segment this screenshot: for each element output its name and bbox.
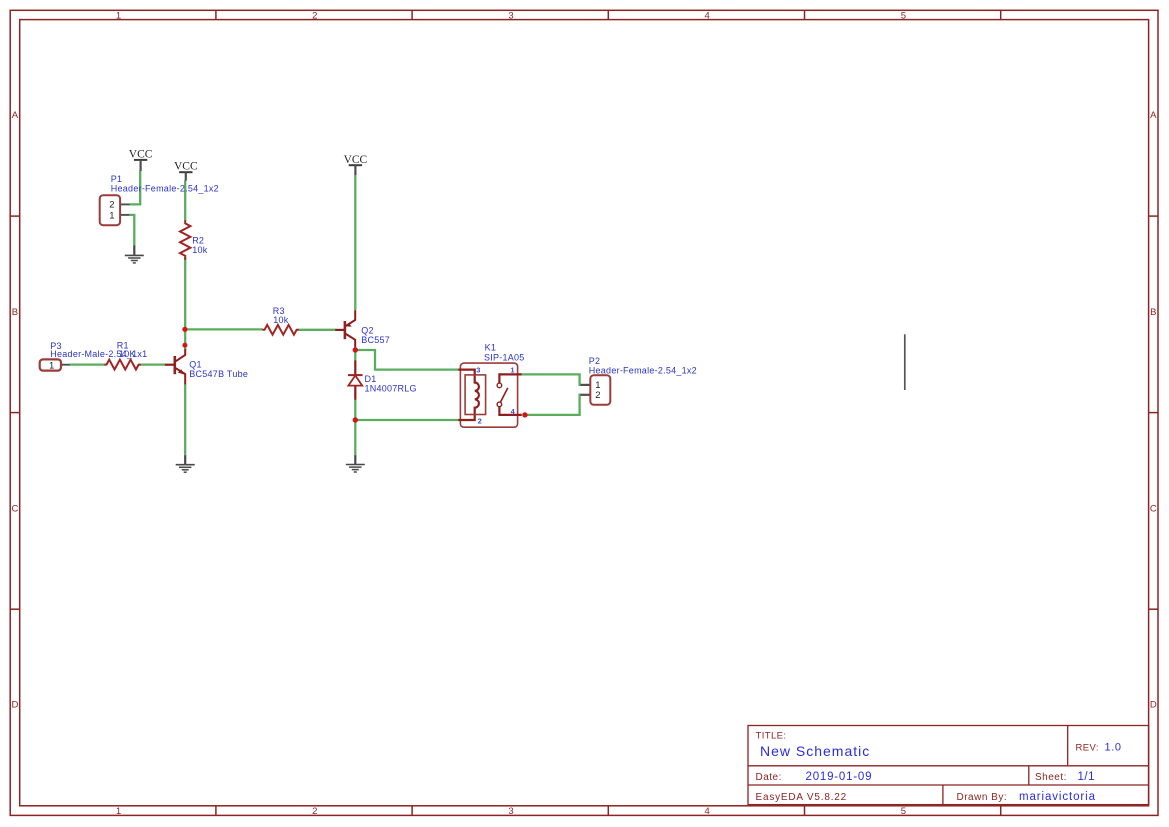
svg-text:2019-01-09: 2019-01-09	[806, 771, 873, 783]
svg-text:5: 5	[901, 806, 906, 817]
power VCC net flag 2	[174, 161, 198, 181]
svg-text:1: 1	[49, 360, 54, 371]
svg-text:1: 1	[116, 806, 121, 817]
ground GND2	[176, 455, 195, 472]
svg-text:Drawn By:: Drawn By:	[957, 792, 1008, 803]
svg-text:BC557: BC557	[361, 335, 390, 345]
wire R1 to Q1 base	[140, 363, 165, 365]
ground GND1	[125, 245, 144, 263]
junction node B	[182, 343, 187, 348]
title block	[748, 726, 1149, 805]
diode D1 1N4007RLG	[348, 360, 417, 399]
wire R2 to node A	[184, 258, 186, 329]
stray wire segment	[904, 334, 906, 390]
svg-text:D1: D1	[365, 374, 377, 384]
svg-text:10k: 10k	[192, 245, 208, 255]
K1 switch pin 4 lead	[499, 407, 521, 415]
svg-text:3: 3	[508, 806, 513, 817]
svg-text:B: B	[1150, 307, 1156, 318]
power VCC net flag 1	[129, 149, 153, 171]
svg-text:R2: R2	[192, 236, 204, 246]
svg-text:A: A	[1150, 110, 1157, 121]
resistor R1 10K	[104, 341, 140, 370]
svg-text:5: 5	[901, 11, 906, 22]
svg-text:P1: P1	[111, 174, 123, 184]
K1 switch contact circle bottom	[497, 402, 502, 407]
K1 switch blade	[500, 388, 508, 403]
wire K1 pin4 to P2 pin2	[525, 395, 582, 415]
relay K1 SIP-1A05	[458, 343, 524, 428]
junction node A	[182, 327, 187, 332]
svg-text:4: 4	[705, 806, 710, 817]
svg-text:P2: P2	[589, 356, 601, 366]
svg-text:2: 2	[312, 806, 317, 817]
wire P1 pin1 to GND	[129, 215, 134, 246]
svg-text:Header-Female-2.54_1x2: Header-Female-2.54_1x2	[589, 366, 697, 376]
svg-text:VCC: VCC	[129, 149, 153, 161]
svg-text:10K: 10K	[119, 349, 136, 359]
svg-text:2: 2	[478, 416, 482, 425]
K1 switch contact circle top	[497, 383, 502, 388]
svg-text:A: A	[12, 110, 19, 121]
svg-text:B: B	[12, 307, 18, 318]
svg-text:REV:: REV:	[1076, 743, 1099, 754]
wire node A to Q1 collector	[184, 329, 186, 349]
wire K1 pin1 to P2 pin1	[522, 374, 582, 385]
svg-text:Sheet:: Sheet:	[1035, 772, 1067, 783]
wire VCC1 to P1 pin2	[130, 171, 141, 205]
wire D1 anode to node D	[354, 400, 356, 421]
junction node C	[353, 347, 358, 352]
K1 coil box	[465, 375, 486, 415]
transistor Q2 BC557 PNP	[335, 310, 390, 350]
wire VCC2 to R2	[184, 180, 186, 220]
svg-text:1: 1	[109, 210, 114, 221]
svg-text:Date:: Date:	[756, 772, 782, 783]
wire node C to K1 pin3	[355, 350, 458, 370]
wire Q2 collector to D1 cathode	[354, 350, 356, 361]
wire R3 to Q2 base	[298, 329, 335, 331]
svg-text:VCC: VCC	[174, 161, 198, 173]
svg-text:3: 3	[508, 11, 513, 22]
transistor Q1 BC547B NPN	[165, 349, 248, 384]
resistor R3 10k	[262, 306, 298, 335]
wire node A to R3	[185, 328, 263, 330]
svg-text:2: 2	[312, 11, 317, 22]
junction node E	[522, 412, 527, 417]
svg-text:Q2: Q2	[361, 326, 374, 336]
svg-text:C: C	[1150, 504, 1157, 515]
svg-text:C: C	[11, 504, 18, 515]
svg-text:VCC: VCC	[344, 154, 368, 166]
junction node D	[353, 417, 358, 422]
power VCC net flag 3	[344, 154, 368, 175]
svg-text:1: 1	[116, 11, 121, 22]
svg-text:SIP-1A05: SIP-1A05	[484, 353, 525, 363]
wire VCC3 to Q2 emitter	[354, 175, 356, 310]
svg-text:2: 2	[109, 200, 114, 211]
connector P1 Header-Female-2.54_1x2	[100, 174, 219, 225]
svg-text:D: D	[11, 700, 18, 711]
svg-text:Q1: Q1	[189, 360, 202, 370]
svg-text:10k: 10k	[273, 315, 289, 325]
resistor R2 10k	[180, 220, 208, 259]
wire node D to GND	[354, 420, 356, 455]
wire P3 to R1	[70, 363, 105, 365]
connector P2 Header-Female-2.54_1x2	[581, 356, 697, 405]
svg-text:1.0: 1.0	[1105, 742, 1122, 754]
K1 switch pin 1 lead	[499, 374, 521, 383]
wire Q1 emitter to GND	[184, 384, 186, 455]
svg-text:D: D	[1150, 700, 1157, 711]
ground GND3	[346, 455, 365, 472]
svg-text:EasyEDA V5.8.22: EasyEDA V5.8.22	[756, 792, 848, 803]
svg-text:1: 1	[510, 366, 514, 375]
svg-text:mariavictoria: mariavictoria	[1019, 791, 1096, 803]
svg-text:4: 4	[705, 11, 710, 22]
svg-text:1/1: 1/1	[1078, 771, 1096, 783]
svg-text:New Schematic: New Schematic	[760, 743, 870, 759]
wire node D to K1 pin2	[355, 419, 458, 421]
svg-text:BC547B Tube: BC547B Tube	[189, 369, 248, 379]
svg-text:3: 3	[476, 366, 480, 375]
connector P3 Header-Male-2.54_1x1	[40, 341, 148, 371]
K1 coil and pins 3,2	[458, 370, 479, 420]
svg-text:K1: K1	[485, 343, 497, 353]
svg-text:Header-Female-2.54_1x2: Header-Female-2.54_1x2	[111, 184, 219, 194]
svg-text:2: 2	[595, 390, 600, 401]
svg-text:1N4007RLG: 1N4007RLG	[365, 384, 417, 394]
svg-text:TITLE:: TITLE:	[756, 731, 787, 742]
